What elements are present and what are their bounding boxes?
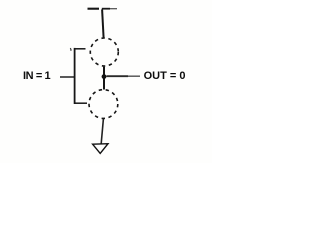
wire VDD to PMOS <box>102 9 104 38</box>
ground <box>93 144 108 154</box>
svg-text:IN = 1: IN = 1 <box>23 70 51 82</box>
wire PMOS to NMOS <box>103 67 105 90</box>
svg-text:OUT = 0: OUT = 0 <box>144 70 186 82</box>
node OUT junction dot <box>102 74 107 79</box>
VDD power rail <box>88 8 118 10</box>
wire NMOS to ground <box>101 119 103 144</box>
stray tick mark (scan artifact near bus corner) <box>69 48 72 51</box>
wire IN to gate bus <box>60 76 75 78</box>
wire gate stub to NMOS <box>74 102 87 104</box>
wire (grey tail) <box>128 75 140 77</box>
wire node to OUT label <box>107 75 129 77</box>
wire gate stub to PMOS <box>74 48 86 50</box>
wire gate bus <box>74 48 76 104</box>
transistor NMOS (dashed-circle switch) <box>89 90 118 119</box>
transistor PMOS (dashed-circle switch) <box>90 38 118 66</box>
